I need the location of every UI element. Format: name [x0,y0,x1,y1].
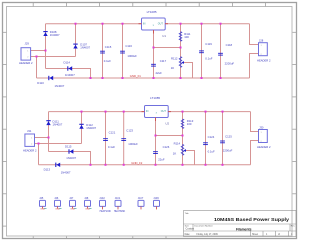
svg-text:GND: GND [70,209,75,211]
connector J101 [114,197,126,213]
diode D111 1N4007 [46,120,62,127]
svg-text:OUT: OUT [158,23,164,26]
junction dots row2 [38,111,224,166]
regulator U2 LT1085 [142,96,172,125]
diode D108 1N4007 [43,30,60,37]
connector J29 HEADER 2 row1 input [19,41,33,64]
svg-text:HEATSINK: HEATSINK [114,210,126,213]
resistor R111 100 [179,32,191,42]
svg-text:J101: J101 [115,197,121,200]
svg-text:C118: C118 [226,43,233,47]
svg-text:2200uF: 2200uF [225,62,235,66]
wire output drop to J28 pin1 [250,24,259,45]
connector J47 [69,197,76,211]
svg-text:HEADER 2: HEADER 2 [257,58,271,62]
svg-text:C123: C123 [126,129,133,133]
wire R111 pot branch [180,24,182,78]
connector J30 HEADER 2 row2 output [257,126,271,150]
connector J106 [153,197,159,209]
svg-text:22uF: 22uF [158,158,165,162]
svg-text:J31: J31 [27,129,32,133]
capacitor C118 2200uF [218,43,234,65]
svg-text:22uF: 22uF [156,71,163,75]
svg-text:J106: J106 [153,197,159,200]
svg-text:2200uF: 2200uF [223,149,233,153]
wire C125 branch [222,112,224,165]
svg-text:C124: C124 [208,135,215,139]
svg-text:100: 100 [184,35,189,39]
svg-text:HEATSINK: HEATSINK [100,210,112,213]
svg-text:J29: J29 [25,41,30,45]
diode D112 1N4007 [79,123,96,130]
svg-text:GND: GND [40,209,45,211]
connector J48 [84,197,91,211]
connector J31 HEADER 2 row2 input [23,129,37,153]
wire top rail left row2 [49,111,145,113]
svg-text:0.1uF: 0.1uF [205,57,212,61]
connector J28 HEADER 2 row1 output [257,39,271,63]
wire bottom ground rail row1 [37,77,250,79]
svg-text:R112: R112 [171,57,178,61]
wire AC2 drop row2 [38,144,40,165]
svg-text:C115: C115 [105,45,112,49]
svg-text:0.1uF: 0.1uF [104,59,111,63]
svg-text:Custom: Custom [186,228,195,231]
capacitor C123 1000uF [121,129,138,146]
wire C117 branch [153,48,155,79]
wire C121 branch [105,112,107,165]
wire left vertical row2 AC1 [48,112,50,152]
wire J28 pin2 return [250,54,259,79]
wire R113 pot branch [182,112,184,165]
svg-text:1000uF: 1000uF [128,142,138,146]
wire U1 ADJ [154,30,181,48]
svg-text:GND: GND [55,209,60,211]
svg-text:J45: J45 [39,197,44,200]
svg-text:Friday, July 17, 2009: Friday, July 17, 2009 [197,233,219,236]
svg-text:Document Number: Document Number [194,224,213,227]
svg-text:J47: J47 [69,197,74,200]
junction dots row1 [36,23,222,79]
diode D113 1N4007 [44,163,71,175]
capacitor C117 22uF [151,59,167,75]
wire bottom ground rail row2 [39,164,251,166]
svg-text:GND_F2: GND_F2 [131,161,142,165]
capacitor C121 0.1uF [103,130,116,149]
potentiometer R114 1K [173,142,186,156]
svg-text:100: 100 [187,122,192,126]
wire pot wiper to ground row2 [185,151,195,165]
svg-text:C119: C119 [205,42,212,46]
svg-text:1N4007: 1N4007 [61,171,71,175]
svg-text:J30: J30 [259,126,264,130]
svg-text:0.1uF: 0.1uF [208,149,215,153]
capacitor C116 1000uF [120,44,137,58]
potentiometer R112 1K [171,57,184,71]
svg-text:Sheet: Sheet [252,233,258,236]
wire D114 horizontal [46,69,91,79]
svg-text:J46: J46 [54,197,59,200]
diode D115 1N4007 [65,144,77,159]
svg-text:D113: D113 [44,167,51,171]
svg-text:J102: J102 [99,197,105,200]
wire J30 pin2 return [251,141,259,165]
svg-text:1N4007: 1N4007 [80,46,90,50]
svg-text:C117: C117 [160,59,167,63]
svg-text:1N4007: 1N4007 [55,84,65,88]
svg-text:1K: 1K [173,151,177,155]
wire J31 pin2 to D112 [35,143,82,145]
wire C126 branch [155,136,157,165]
wire top rail right row2 [168,111,251,113]
capacitor C119 0.1uF [199,42,213,60]
svg-text:J48: J48 [84,197,89,200]
svg-text:10M45S Based Power Supply: 10M45S Based Power Supply [214,217,290,222]
svg-text:R114: R114 [174,142,181,146]
wire output drop to J30 pin1 [251,112,259,132]
svg-text:D114: D114 [64,61,71,65]
svg-text:LT1085: LT1085 [150,96,160,100]
wire J31 pin1 [35,137,49,139]
svg-text:1K: 1K [171,66,175,70]
regulator U1 LT1085 [139,10,169,38]
svg-text:IN: IN [143,23,146,26]
svg-text:Date:: Date: [185,233,191,236]
svg-text:1N4007: 1N4007 [86,126,96,130]
wire C124 branch [205,112,207,165]
wire top rail left row1 [46,23,142,25]
connector J45 [39,197,46,211]
svg-text:C125: C125 [225,135,232,139]
wire C115 branch [102,24,104,78]
svg-text:0.1uF: 0.1uF [108,145,115,149]
svg-text:1N4007: 1N4007 [65,73,75,77]
connector J46 [54,197,61,211]
wire J29 pin1 [31,50,46,52]
wire D115 horizontal [49,152,91,165]
svg-text:C121: C121 [109,130,116,134]
title block frame [184,211,297,237]
svg-text:1N4007: 1N4007 [66,156,76,160]
wire D107 vertical [75,24,77,57]
wire AC2 drop row1 [36,57,38,79]
diode D107 1N4007 [73,43,90,50]
svg-text:U1: U1 [162,34,166,38]
svg-text:HEADER 2: HEADER 2 [257,145,271,149]
svg-text:GND_F1: GND_F1 [130,74,141,78]
resistor R113 100 [181,119,193,129]
svg-text:HEADER 2: HEADER 2 [23,149,37,153]
wire D112 vertical [81,112,83,144]
svg-text:OUT: OUT [161,110,167,113]
svg-text:1N4007: 1N4007 [50,33,60,37]
capacitor C126 22uF [153,145,170,161]
svg-text:GND: GND [85,209,90,211]
capacitor C115 0.1uF [100,45,112,63]
svg-text:LT1085: LT1085 [147,10,157,14]
svg-text:U2: U2 [165,121,169,125]
svg-text:J107: J107 [138,197,144,200]
wire top rail right row1 [165,23,250,25]
svg-text:1000uF: 1000uF [127,54,137,58]
wire J29 pin2 to D107 [31,56,76,58]
svg-text:Filaments: Filaments [236,227,252,231]
diode D114 1N4007 [64,61,76,77]
svg-text:J28: J28 [259,39,264,43]
wire U2 ADJ [156,118,183,136]
svg-text:D110: D110 [37,81,44,85]
svg-text:HEADER 2: HEADER 2 [19,61,33,65]
wire C123 branch [123,112,125,165]
wire C116 branch [122,24,124,78]
svg-text:D115: D115 [65,144,72,148]
wire C118 branch [220,24,222,78]
connector J102 [99,197,111,213]
wire left vertical row1 AC1 [45,24,47,69]
capacitor C125 2200uF [220,135,232,153]
title block small texts [185,212,296,236]
svg-text:1N4007: 1N4007 [53,123,63,127]
connector J107 [138,197,144,209]
diode D110 1N4007 [37,76,64,88]
wire C119 branch [201,24,203,78]
capacitor C124 0.1uF [203,135,215,153]
svg-text:C116: C116 [125,44,132,48]
wire pot wiper to ground row1 [183,63,193,79]
svg-text:IN: IN [146,110,149,113]
svg-text:C126: C126 [163,145,170,149]
